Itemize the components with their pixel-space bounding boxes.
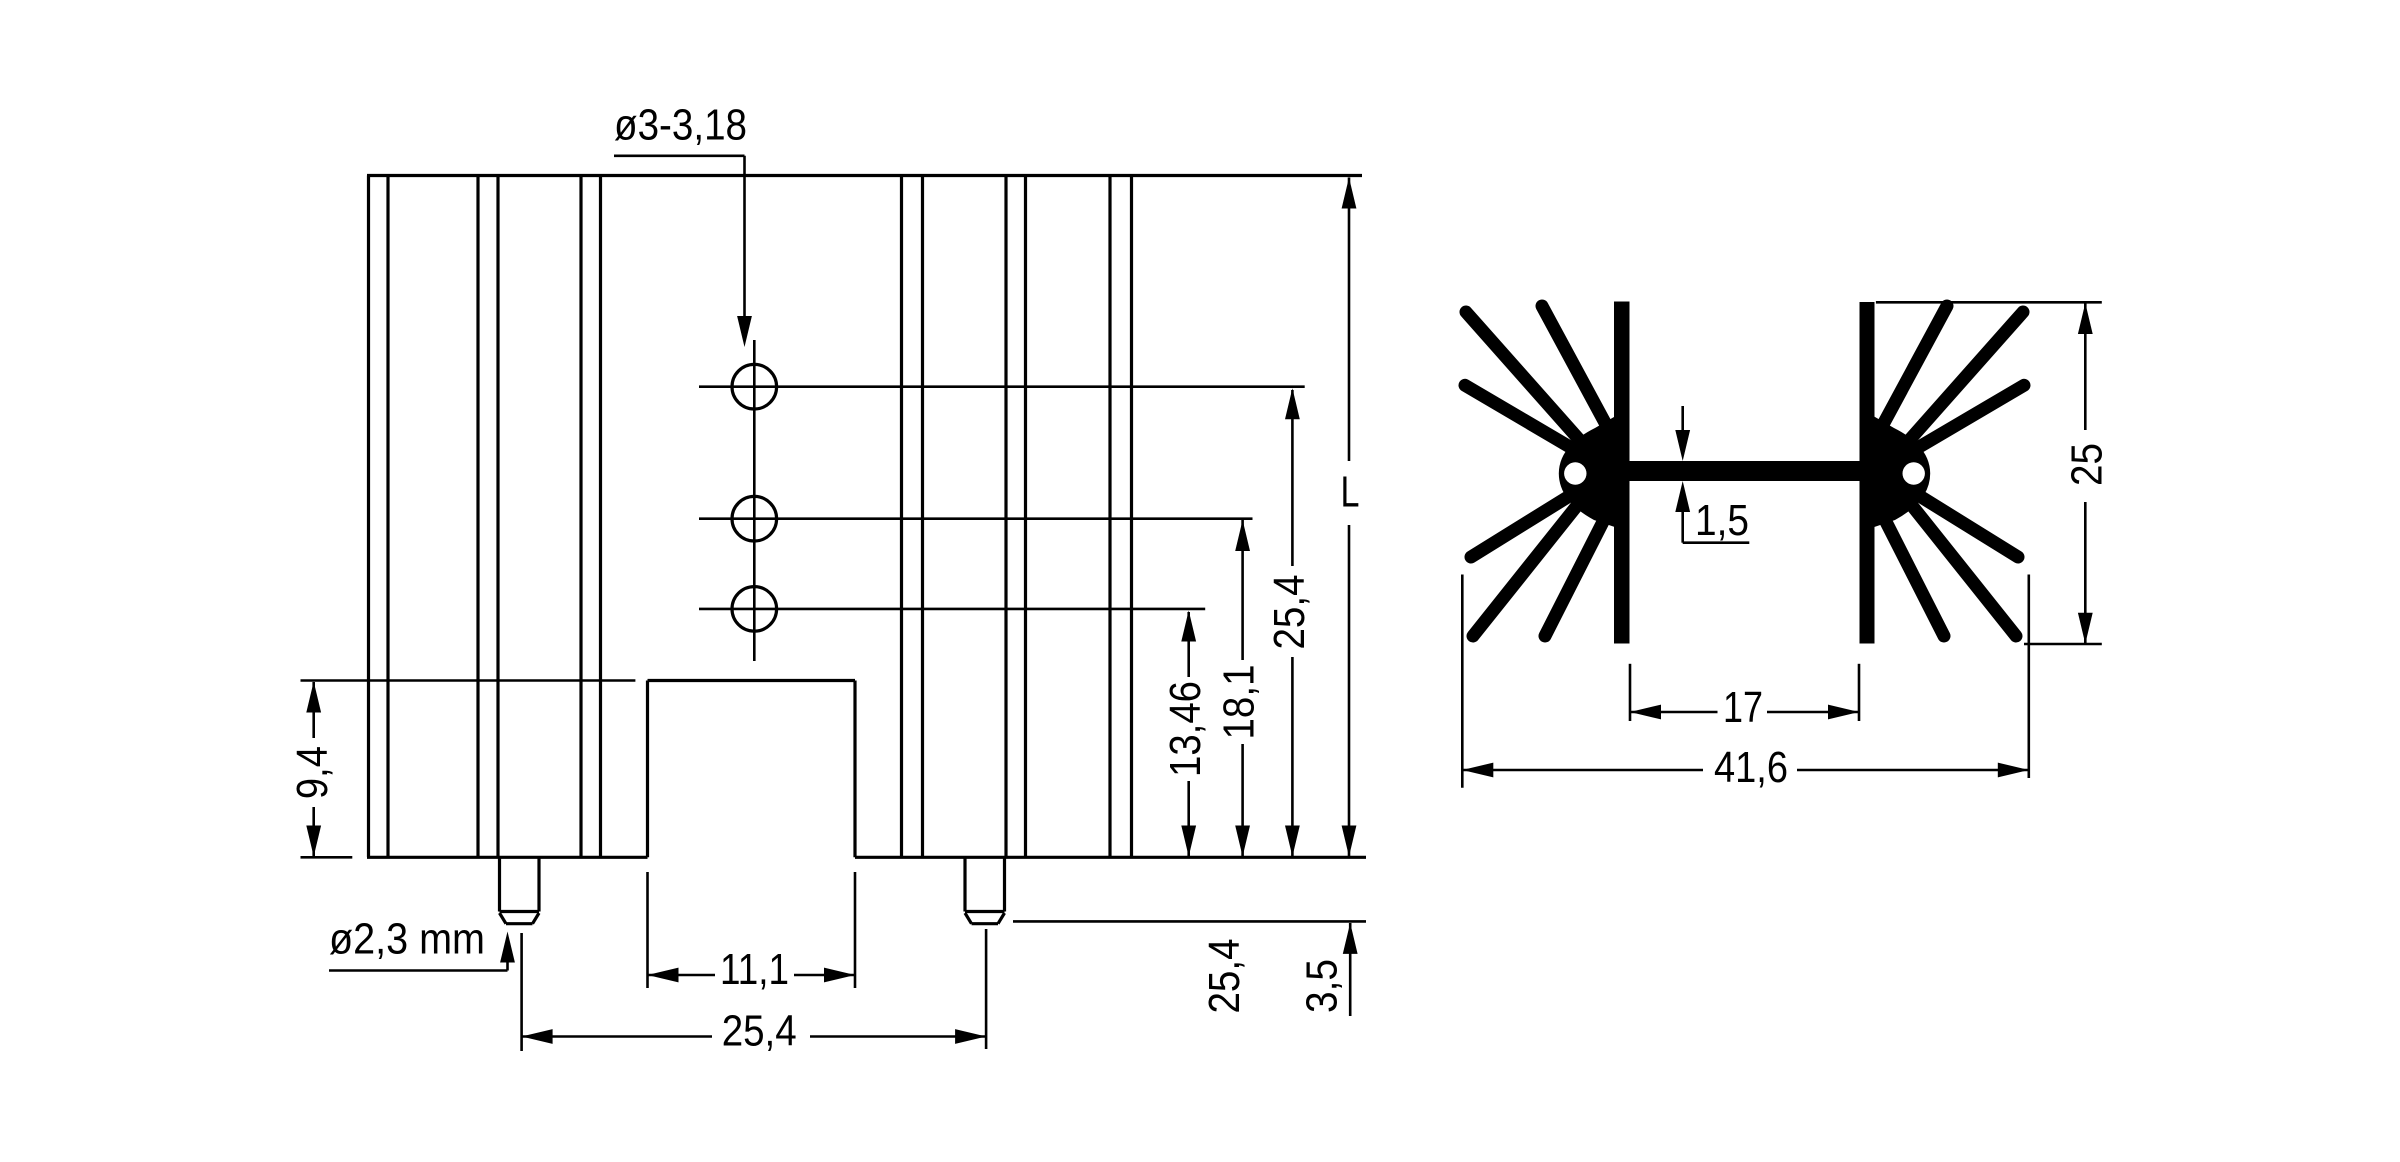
dim 13,46 line: [1187, 612, 1190, 677]
right cluster fins: [1879, 306, 2024, 636]
fin groove line x=388: [386, 177, 389, 856]
dim 17 extension left: [1629, 664, 1632, 721]
svg-text:17: 17: [1723, 683, 1763, 732]
arrow 3,5 up: [1343, 923, 1358, 954]
arrows front view: [306, 178, 1357, 1044]
dim 11,1 extension right: [854, 872, 857, 988]
dim 25 extension top: [1876, 301, 2102, 304]
arrow 1,5 down (to bar top): [1675, 430, 1690, 461]
hole H2 horizontal centerline / extension to 18,1 dim: [699, 517, 1253, 520]
dim 25 extension bottom: [2024, 643, 2102, 646]
dim 41,6 extension left: [1461, 575, 1464, 788]
right spine bar: [1860, 302, 1875, 644]
svg-text:1,5: 1,5: [1695, 496, 1749, 545]
arrow 18,1 down: [1235, 826, 1250, 857]
left spine bar: [1614, 302, 1630, 644]
fin groove line x=1026: [1024, 177, 1027, 856]
arrow 41,6 left: [1462, 763, 1493, 778]
dim 17 line: [1630, 711, 1718, 714]
svg-text:3,5: 3,5: [1298, 959, 1347, 1013]
svg-text:ø2,3 mm: ø2,3 mm: [329, 915, 485, 964]
fin groove line x=581: [579, 177, 582, 856]
hole H3 horizontal centerline / extension to 13,46 dim: [699, 608, 1205, 611]
base web bar: [1629, 461, 1860, 481]
hole H3: [732, 587, 777, 632]
dim 25 line: [2084, 303, 2087, 430]
fin groove line x=922: [921, 177, 924, 856]
svg-text:18,1: 18,1: [1214, 665, 1263, 740]
arrow 41,6 right: [1998, 763, 2029, 778]
arrow 13,46 down: [1181, 826, 1196, 857]
arrow 17 left: [1630, 705, 1661, 720]
left pin outline: [500, 857, 540, 923]
svg-text:25,4: 25,4: [1200, 939, 1249, 1014]
arrow 25,4 bottom right: [955, 1029, 986, 1044]
body bottom edge right of notch (extends right as extension line): [855, 856, 1366, 859]
texts section view: [1695, 443, 2111, 792]
arrows section view: [1462, 303, 2092, 777]
notch right side: [853, 681, 856, 858]
svg-text:41,6: 41,6: [1714, 743, 1788, 792]
dim 41,6 line: [1462, 769, 1703, 772]
arrow 25 down: [2078, 613, 2093, 644]
arrow ø2,3 leader up: [500, 932, 515, 963]
dim 9,4 extension line bottom: [301, 856, 353, 859]
arrow 17 right: [1828, 705, 1859, 720]
arrow 1,5 up (to bar bottom): [1675, 481, 1690, 512]
arrow 25,4 hole1 up: [1285, 388, 1300, 419]
body left edge: [367, 176, 370, 858]
body bottom edge left of notch: [367, 856, 648, 859]
arrow 9,4 down: [306, 826, 321, 857]
right hub mass with collar around hole: [1860, 408, 1931, 532]
right pin outline: [965, 857, 1005, 923]
svg-text:25: 25: [2062, 443, 2111, 486]
arrow of ø3-3,18 leader (down): [737, 316, 752, 347]
hole H1 horizontal centerline / extension to 25,4 dim: [699, 385, 1305, 388]
left hub mass with collar around hole: [1559, 408, 1630, 532]
arrow 9,4 up: [306, 682, 321, 713]
arrow 25 up: [2078, 303, 2093, 334]
svg-text:L: L: [1341, 468, 1360, 517]
dim L line: [1348, 178, 1351, 462]
arrow L up: [1342, 178, 1357, 209]
dim 9,4 line: [312, 682, 315, 738]
dim 25,4 bottom extension left: [520, 933, 523, 1051]
svg-text:13,46: 13,46: [1161, 681, 1210, 777]
arrow 18,1 up: [1235, 520, 1250, 551]
hole H1: [732, 364, 777, 409]
body top edge line (extends right as extension line for L dim): [367, 174, 1362, 177]
svg-text:11,1: 11,1: [720, 945, 789, 994]
arrow 13,46 up: [1181, 611, 1196, 642]
arrow 25,4 hole1 down: [1285, 826, 1300, 857]
dim 3,5 line: [1349, 923, 1352, 1016]
dim 1,5 upper leader: [1681, 406, 1684, 432]
dim 1,5 lower leader: [1681, 510, 1684, 543]
hole H2: [732, 496, 777, 541]
dim 25,4 bottom extension right: [985, 929, 988, 1049]
notch left side: [646, 681, 649, 858]
body right edge: [1130, 176, 1133, 858]
dim 41,6 extension right: [2028, 575, 2031, 779]
fin groove line x=498: [496, 177, 499, 856]
dim 25,4 bottom line: [522, 1035, 712, 1038]
label leader ø2,3 mm: [329, 969, 508, 972]
notch top edge: [648, 679, 856, 682]
holes vertical centerline: [753, 340, 756, 661]
arrow 25,4 bottom left: [522, 1029, 553, 1044]
fin groove line x=478: [476, 177, 479, 856]
arrow 11,1 right: [824, 968, 855, 983]
left cluster fins: [1465, 306, 1610, 636]
fin groove line x=1110: [1108, 177, 1111, 856]
fin groove line x=1006: [1004, 177, 1007, 856]
dim 9,4 extension line top (notch top level, crosses body): [301, 679, 636, 682]
fin groove line x=600: [599, 177, 602, 856]
label leader ø3-3,18: [614, 155, 745, 158]
arrow 11,1 left: [648, 968, 679, 983]
dim 11,1 extension left: [646, 872, 649, 988]
texts front view: [288, 101, 1360, 1056]
arrow L down: [1342, 826, 1357, 857]
dim 17 extension right: [1858, 664, 1861, 721]
dim 11,1 line: [648, 974, 716, 977]
left hub hole (white): [1564, 462, 1586, 484]
dim 18,1 line: [1241, 520, 1244, 660]
right hub hole (white): [1903, 462, 1925, 484]
svg-text:9,4: 9,4: [288, 746, 337, 799]
pin bottom extension line (right): [1013, 920, 1366, 923]
svg-text:ø3-3,18: ø3-3,18: [614, 101, 747, 150]
svg-text:25,4: 25,4: [1265, 575, 1314, 650]
fin groove line x=902: [900, 177, 903, 856]
dim 25,4 (hole1) line: [1291, 390, 1294, 566]
svg-text:25,4: 25,4: [722, 1007, 797, 1056]
